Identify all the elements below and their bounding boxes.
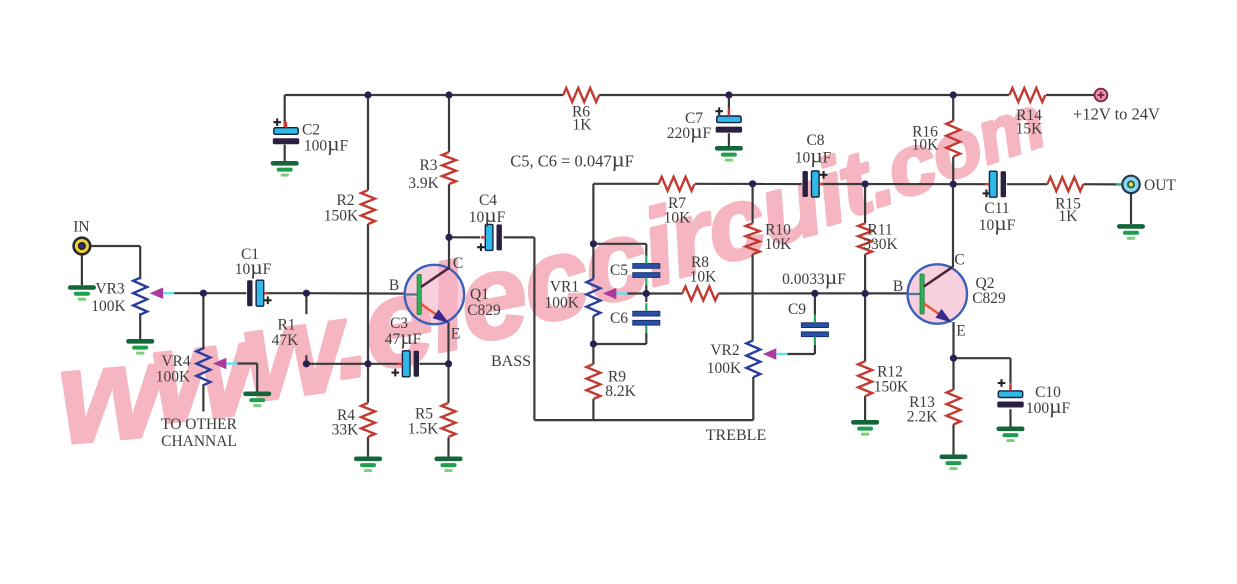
svg-text:C6: C6 [610, 310, 628, 327]
svg-text:TO OTHER: TO OTHER [161, 416, 238, 433]
svg-text:C829: C829 [972, 290, 1006, 307]
svg-text:C: C [954, 252, 964, 269]
svg-text:E: E [451, 326, 460, 343]
svg-text:1K: 1K [1059, 208, 1079, 225]
svg-text:VR3: VR3 [95, 281, 125, 298]
svg-text:R3: R3 [419, 157, 437, 174]
svg-text:VR1: VR1 [550, 279, 579, 296]
svg-text:OUT: OUT [1144, 177, 1176, 194]
svg-text:C829: C829 [467, 302, 501, 319]
svg-text:C5: C5 [610, 262, 628, 279]
svg-text:C2: C2 [302, 122, 320, 139]
svg-text:15K: 15K [1016, 121, 1044, 138]
svg-text:VR2: VR2 [710, 342, 739, 359]
svg-text:150K: 150K [874, 379, 909, 396]
svg-text:IN: IN [73, 219, 89, 236]
svg-text:C9: C9 [788, 301, 806, 318]
svg-text:10K: 10K [912, 137, 940, 154]
svg-text:47K: 47K [272, 332, 300, 349]
svg-text:100K: 100K [707, 360, 742, 377]
svg-text:B: B [893, 278, 903, 295]
svg-text:100K: 100K [544, 295, 579, 312]
svg-text:1.5K: 1.5K [408, 421, 439, 438]
svg-text:BASS: BASS [491, 353, 531, 370]
svg-text:VR4: VR4 [161, 353, 191, 370]
svg-text:100K: 100K [91, 298, 126, 315]
svg-text:CHANNAL: CHANNAL [161, 433, 237, 450]
svg-text:B: B [389, 277, 399, 294]
svg-text:Q1: Q1 [470, 286, 489, 303]
svg-text:R2: R2 [336, 192, 354, 209]
svg-text:TREBLE: TREBLE [706, 427, 766, 444]
svg-text:E: E [956, 323, 965, 340]
svg-text:10K: 10K [664, 210, 692, 227]
svg-text:100K: 100K [156, 369, 191, 386]
svg-text:10K: 10K [765, 236, 793, 253]
svg-text:R1: R1 [277, 317, 295, 334]
svg-text:33K: 33K [332, 422, 360, 439]
svg-text:330K: 330K [863, 236, 898, 253]
svg-text:10K: 10K [690, 269, 718, 286]
svg-text:C: C [453, 255, 463, 272]
svg-text:+12V to 24V: +12V to 24V [1073, 105, 1160, 124]
svg-text:3.9K: 3.9K [408, 175, 439, 192]
svg-text:1K: 1K [573, 117, 593, 134]
svg-text:2.2K: 2.2K [907, 409, 938, 426]
svg-text:8.2K: 8.2K [605, 383, 636, 400]
svg-text:150K: 150K [324, 208, 359, 225]
